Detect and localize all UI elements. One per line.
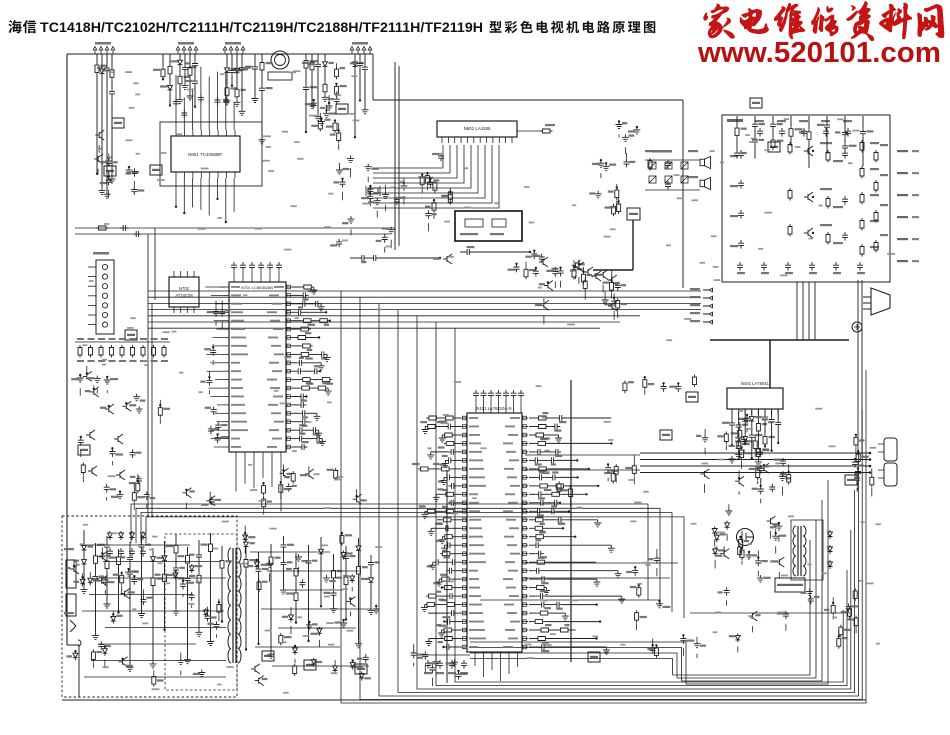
svg-text:N702: N702 [179,286,190,291]
svg-text:N401 LA78041: N401 LA78041 [741,381,770,386]
svg-text:N701 LC863528B: N701 LC863528B [241,285,273,290]
svg-text:N801 TC4066BP: N801 TC4066BP [188,152,222,157]
svg-text:TC1418H/TC2102H/TC2111H/TC2119: TC1418H/TC2102H/TC2111H/TC2119H/TC2188H/… [40,20,483,36]
svg-text:AT24C08: AT24C08 [175,293,193,298]
svg-text:www.520101.com: www.520101.com [697,37,941,69]
svg-text:N601 LA4285: N601 LA4285 [464,126,491,131]
